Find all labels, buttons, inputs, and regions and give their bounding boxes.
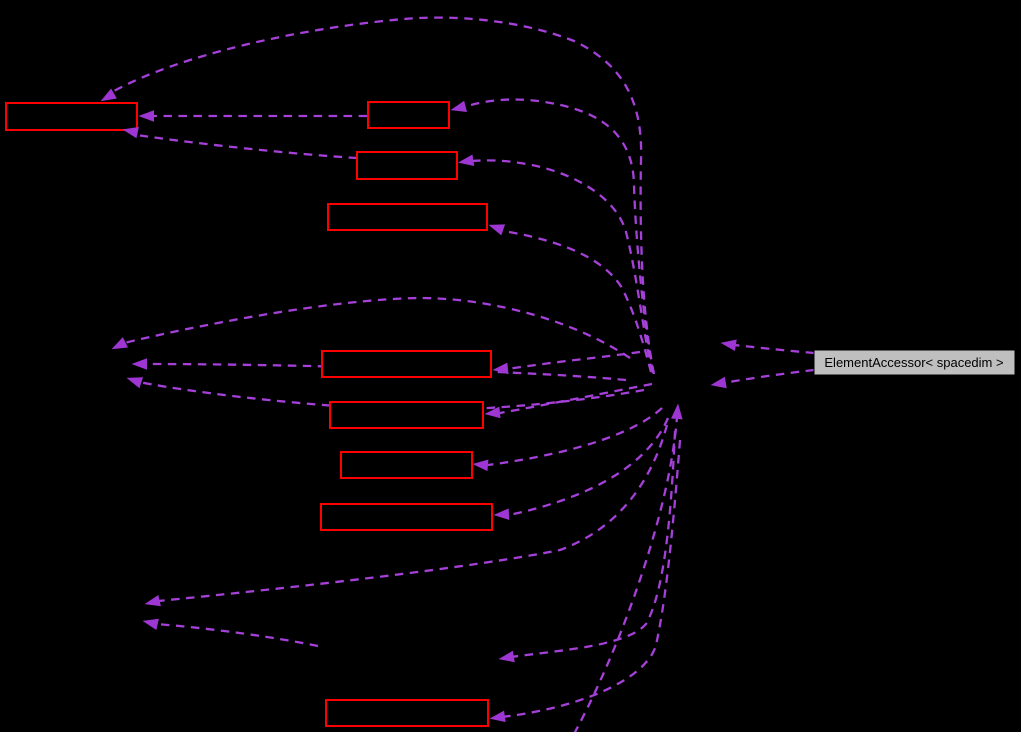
arrowhead A2 of E2 bbox=[139, 110, 155, 122]
node B9 (truncated, bottom) bbox=[326, 700, 488, 726]
edge E13: bottom hidden node to bottom-left hidden node (lower) bbox=[156, 624, 318, 646]
edge E14: hub to bottom hidden node bbox=[511, 431, 675, 657]
arrowhead A1 of E1 bbox=[98, 88, 117, 106]
edge E17: ElementAccessor to hub (upper) bbox=[734, 345, 814, 353]
edge E3: node B3 to node B1 bbox=[140, 136, 357, 159]
arrowhead A7b of E7b bbox=[132, 358, 148, 370]
node B5 (truncated) bbox=[322, 351, 491, 377]
arrowhead A5 of E5 bbox=[457, 154, 474, 168]
edge E8: hub to node B5 bbox=[508, 352, 640, 369]
edge E5: hub to node B3 bbox=[472, 160, 652, 372]
arrowhead A8 of E8 bbox=[492, 363, 509, 376]
node B3 (truncated) bbox=[357, 152, 457, 179]
arrowhead A14 of E14 bbox=[498, 651, 515, 665]
edge E11: hub to node B8 bbox=[509, 418, 668, 515]
arrowhead A7c of E7c bbox=[125, 372, 143, 388]
edge E9: hub to node B6 bbox=[500, 384, 652, 413]
arrowhead A13 of E13 bbox=[141, 615, 159, 630]
arrowhead A12 of E12 bbox=[143, 595, 161, 610]
arrowhead A11 of E11 bbox=[493, 508, 509, 520]
edge E15: hub to node B9 bbox=[502, 440, 680, 717]
node B6 (truncated) bbox=[330, 402, 483, 428]
node B7 (truncated) bbox=[341, 452, 472, 478]
edge E10: hub to node B7 bbox=[488, 408, 662, 465]
node B4 (truncated) bbox=[328, 204, 487, 230]
node ElementAccessor< spacedim > (current class, grey) bbox=[814, 350, 1015, 375]
arrowhead A10 of E10 bbox=[472, 458, 488, 471]
node B2 (truncated) bbox=[368, 102, 449, 128]
arrowhead A3 of E3 bbox=[121, 124, 139, 139]
arrowhead A7a of E7a bbox=[109, 337, 128, 354]
edge E6: hub to node B4 bbox=[503, 231, 651, 372]
node B8 (truncated) bbox=[321, 504, 492, 530]
edge E18: ElementAccessor to hub (lower) bbox=[723, 370, 814, 383]
arrowhead A4 of E4 bbox=[449, 101, 467, 116]
arrowhead A9 of E9 bbox=[484, 407, 501, 420]
edge E16: lower node back up into hub bbox=[574, 417, 677, 732]
svg-text:ElementAccessor< spacedim >: ElementAccessor< spacedim > bbox=[824, 355, 1003, 370]
arrowhead A18 of E18 bbox=[710, 377, 727, 391]
arrowhead A17 of E17 bbox=[720, 337, 737, 351]
edge E4: hub to node B2 bbox=[464, 100, 653, 373]
arrowhead A15 of E15 bbox=[489, 711, 506, 725]
arrowhead A6 of E6 bbox=[487, 219, 505, 235]
edge E12: hub to bottom-left hidden node (upper) bbox=[158, 425, 667, 601]
arrowhead A16 of E16 bbox=[671, 403, 684, 419]
edge E7c: hub to left hidden node (lower arc) bbox=[139, 382, 644, 410]
edge E1: hub to node B1 (top-left, over-the-top curve) bbox=[114, 18, 654, 374]
edge E7a: hub to left hidden node (upper arc) bbox=[124, 298, 630, 358]
edge E7b: hub to left hidden node (straight) bbox=[145, 364, 626, 380]
edge E2: node B2 to node B1 bbox=[154, 115, 367, 117]
node B1 (truncated, top-left) bbox=[6, 103, 137, 130]
